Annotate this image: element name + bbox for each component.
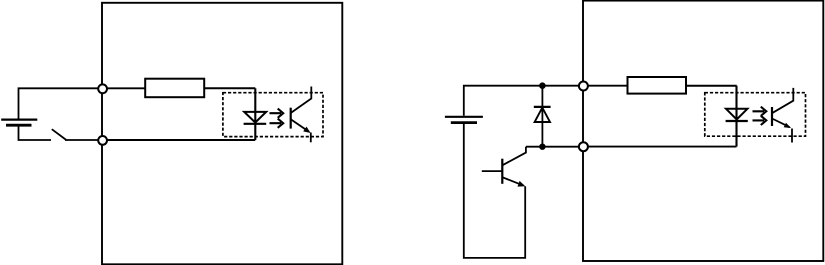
phototransistor Q3 base bar (771, 107, 773, 126)
phototransistor Q3 emitter stub (791, 129, 793, 143)
wire battery negative lead (19, 126, 52, 140)
resistor R1 (145, 79, 204, 98)
battery B2 long plate (445, 116, 483, 118)
light arrow lower (270, 119, 284, 128)
diode D3 cathode bar (534, 106, 551, 108)
phototransistor Q1 collector (291, 87, 312, 114)
phototransistor Q3 collector (772, 88, 793, 113)
LED D1 cathode bar (244, 123, 267, 125)
wire resistor to LED branch (204, 87, 255, 89)
phototransistor Q3 emitter arrowhead (784, 123, 791, 128)
wire vertical LED branch (254, 88, 256, 140)
LED D4 cathode bar (726, 120, 748, 122)
LED D1 triangle (244, 112, 266, 123)
terminal X2 bottom (left unit) (98, 136, 107, 145)
wire top terminal to resistor (right) (583, 85, 628, 87)
wire resistor to LED branch (right) (686, 85, 737, 87)
module box (left input unit) (102, 3, 342, 265)
wire terminal to resistor (102, 87, 146, 89)
phototransistor Q1 emitter arrowhead (303, 127, 310, 133)
optocoupler PC1 dashed package (223, 93, 323, 137)
wire battery positive lead to top rail (464, 86, 583, 116)
LED D4 triangle (726, 109, 747, 120)
phototransistor Q3 emitter (772, 119, 790, 128)
wire collector to bottom terminal (526, 146, 583, 148)
light arrow upper (270, 109, 284, 118)
transistor Q2 emitter arrowhead (518, 181, 526, 187)
terminal X1 top (left unit) (98, 84, 107, 93)
switch S1 blade (52, 129, 67, 140)
phototransistor Q1 emitter (291, 119, 309, 131)
diode D3 vertical wire (541, 86, 543, 147)
transistor Q2 collector (502, 147, 526, 166)
battery B2 short plate (451, 121, 477, 124)
transistor Q2 emitter (502, 177, 523, 185)
phototransistor Q1 emitter stub (310, 133, 312, 143)
optocoupler PC2 dashed package (705, 93, 806, 137)
wire switch to bottom terminal (65, 139, 102, 141)
transistor Q2 base bar (501, 159, 503, 184)
diode D3 triangle (535, 108, 550, 122)
junction dot bottom rail (539, 144, 545, 150)
terminal X4 bottom (right unit) (579, 142, 588, 151)
transistor Q2 base lead (482, 170, 503, 172)
wire battery negative loop to emitter (464, 123, 525, 258)
wire vertical LED branch (right) (735, 86, 737, 147)
light arrow upper (right) (753, 107, 767, 116)
wire bottom return to terminal (right) (583, 146, 737, 148)
wire top lead from battery to terminal (19, 88, 103, 118)
module box (right input unit) (583, 1, 823, 261)
light arrow lower (right) (753, 116, 767, 125)
wire bottom return to terminal (102, 139, 255, 141)
phototransistor Q1 base bar (290, 108, 292, 129)
junction dot top rail (539, 82, 546, 89)
resistor R2 (628, 77, 687, 94)
battery B1 long plate (1, 118, 37, 120)
terminal X3 top (right unit) (579, 82, 588, 91)
battery B1 short plate (6, 124, 32, 127)
